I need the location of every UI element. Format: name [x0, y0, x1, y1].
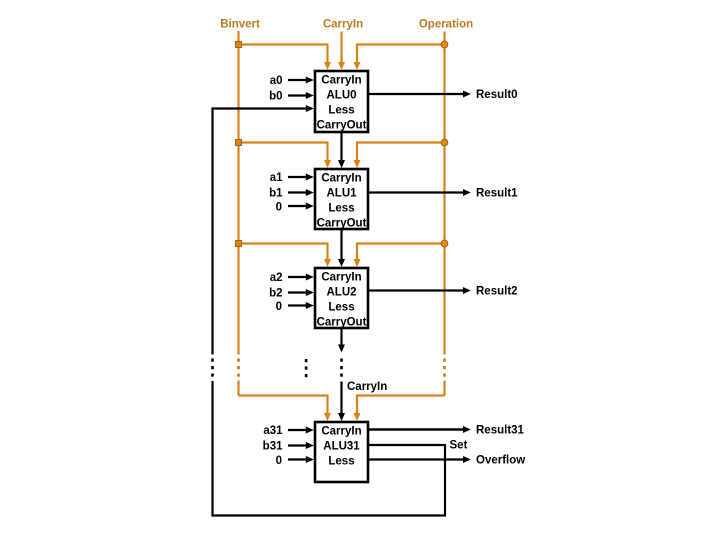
wire Set stub [368, 444, 446, 446]
junction Operation level1 [441, 139, 448, 146]
wire carry cascade U0 to U1 [340, 132, 342, 162]
arrow Result31 [463, 426, 471, 433]
wire b0 input [288, 94, 307, 96]
arrow b0 into U0 [306, 92, 314, 99]
pin label a1 [270, 172, 283, 184]
arrow carry into U2 [338, 259, 345, 267]
wire 0 into U31 [288, 458, 307, 460]
junction Binvert level0 [236, 42, 242, 48]
wire b2 input [288, 291, 307, 293]
svg-text:Less: Less [328, 203, 354, 215]
pin label b2 [269, 288, 282, 300]
arrow 0 into U31 [306, 456, 314, 463]
arrow Result0 [463, 91, 471, 98]
ALU U1 [315, 169, 368, 230]
svg-text:Less: Less [328, 105, 354, 117]
wire Operation branch level0 [357, 45, 445, 64]
svg-text:CarryOut: CarryOut [317, 218, 367, 230]
arrow Operation into U31 [354, 413, 361, 421]
pin label a31 [263, 425, 283, 437]
arrow CarryIn into U0 [338, 62, 345, 70]
arrow Operation into U1 [354, 160, 361, 168]
svg-text:CarryIn: CarryIn [321, 75, 361, 87]
svg-text:a0: a0 [270, 75, 283, 87]
wire b1 input [288, 191, 307, 193]
svg-text:Less: Less [328, 302, 354, 314]
wire Result0 [368, 93, 464, 95]
svg-text:CarryIn: CarryIn [321, 272, 361, 284]
arrow b31 into U31 [306, 442, 314, 449]
arrow Result1 [463, 189, 471, 196]
wire Result2 [368, 289, 464, 291]
pin label b1 [269, 188, 283, 200]
arrow 0 into U1 [306, 203, 314, 210]
arrow Result2 [463, 287, 471, 294]
value label 0 U1 [276, 202, 282, 214]
wire carry cascade below U2 [340, 328, 342, 346]
net label Binvert [220, 19, 260, 31]
wire Set feedback left vertical upper [211, 108, 213, 355]
arrow Less into U0 [306, 105, 314, 112]
arrow Binvert into U31 [324, 413, 331, 421]
svg-text:Result2: Result2 [476, 286, 518, 298]
svg-text:Overflow: Overflow [476, 455, 525, 467]
ellipsis input column [305, 359, 308, 377]
value label 0 U2 [276, 301, 282, 313]
svg-text:Result1: Result1 [476, 188, 518, 200]
wire CarryIn drop into U0 [340, 32, 342, 64]
ALU U0 [315, 71, 368, 132]
wire Operation trunk [443, 32, 445, 355]
ellipsis carry cascade [340, 359, 343, 377]
svg-text:b2: b2 [269, 288, 282, 300]
svg-text:b31: b31 [263, 441, 283, 453]
svg-text:CarryIn: CarryIn [321, 426, 361, 438]
arrow Operation into U0 [354, 62, 361, 70]
svg-text:CarryIn: CarryIn [347, 381, 387, 393]
pin label b0 [269, 91, 282, 103]
svg-text:b1: b1 [269, 188, 283, 200]
svg-text:Binvert: Binvert [220, 19, 260, 31]
wire a0 input [288, 79, 307, 81]
wire a1 input [288, 176, 307, 178]
junction Binvert level1 [236, 140, 242, 146]
svg-text:a31: a31 [263, 425, 283, 437]
wire Binvert trunk [237, 31, 239, 355]
wire Set feedback left vertical lower [211, 381, 213, 517]
svg-text:0: 0 [276, 202, 282, 214]
junction Operation level2 [441, 240, 448, 247]
arrow carry cascade stub [338, 345, 345, 353]
arrow Overflow [463, 456, 471, 463]
svg-text:CarryIn: CarryIn [321, 173, 361, 185]
net label CarryIn [323, 19, 363, 31]
net label Overflow [476, 455, 525, 467]
wire Set feedback right vertical [444, 445, 446, 517]
arrow Operation into U2 [354, 259, 361, 267]
svg-text:a1: a1 [270, 172, 283, 184]
wire carry cascade into U31 [340, 382, 342, 415]
junction Binvert level2 [236, 241, 242, 247]
svg-text:Result31: Result31 [476, 425, 525, 437]
wire a31 input [288, 429, 307, 431]
pin label a0 [270, 75, 283, 87]
ellipsis Binvert trunk [237, 359, 240, 377]
arrow carry into U1 [338, 160, 345, 168]
ellipsis Operation trunk [443, 359, 446, 377]
net label Result1 [476, 188, 518, 200]
svg-text:ALU0: ALU0 [326, 90, 356, 102]
arrow a31 into U31 [306, 427, 314, 434]
ellipsis Set feedback [211, 359, 214, 377]
wire 0 into U1 [288, 205, 307, 207]
net label CarryIn mid [347, 381, 387, 393]
net label Result2 [476, 286, 518, 298]
svg-text:0: 0 [276, 455, 282, 467]
wire Set feedback bottom horizontal [212, 514, 447, 516]
wire Binvert branch level1 [239, 143, 328, 162]
svg-text:b0: b0 [269, 91, 282, 103]
wire Binvert branch level0 [239, 45, 328, 64]
svg-text:ALU31: ALU31 [323, 441, 360, 453]
arrow Binvert into U0 [324, 62, 331, 70]
arrow b2 into U2 [306, 289, 314, 296]
svg-text:CarryOut: CarryOut [317, 317, 367, 329]
wire carry cascade U1 to U2 [340, 229, 342, 261]
pin label b31 [263, 441, 283, 453]
arrow Binvert into U1 [324, 160, 331, 168]
wire b31 input [288, 444, 307, 446]
wire Binvert branch level2 [239, 244, 328, 261]
wire Operation branch level1 [357, 143, 445, 162]
arrow a1 into U1 [306, 174, 314, 181]
net label Result0 [476, 89, 518, 101]
svg-text:Operation: Operation [419, 19, 473, 31]
arrow a0 into U0 [306, 77, 314, 84]
wire Operation trunk lower segment [443, 381, 445, 396]
wire Operation branch level3 [357, 396, 445, 415]
arrow Binvert into U2 [324, 259, 331, 267]
svg-text:0: 0 [276, 301, 282, 313]
wire Binvert trunk lower segment [237, 381, 239, 396]
wire Less input U0 [212, 107, 308, 109]
svg-text:Set: Set [450, 440, 468, 452]
svg-text:a2: a2 [270, 272, 283, 284]
svg-text:ALU2: ALU2 [326, 287, 356, 299]
junction Operation level0 [441, 41, 448, 48]
wire Binvert branch level3 [239, 396, 328, 415]
wire a2 input [288, 276, 307, 278]
value label 0 U31 [276, 455, 282, 467]
wire Result31 [368, 428, 464, 430]
wire Overflow [368, 458, 464, 460]
svg-text:Less: Less [328, 456, 354, 468]
wire 0 into U2 [288, 304, 307, 306]
arrow b1 into U1 [306, 189, 314, 196]
svg-text:CarryIn: CarryIn [323, 19, 363, 31]
arrow 0 into U2 [306, 302, 314, 309]
net label Set [450, 440, 468, 452]
ALU U2 [315, 268, 368, 329]
wire Result1 [368, 191, 464, 193]
net label Result31 [476, 425, 525, 437]
svg-text:CarryOut: CarryOut [317, 120, 367, 132]
svg-text:ALU1: ALU1 [326, 188, 357, 200]
arrow carry into U31 [338, 413, 345, 421]
ALU U31 [315, 422, 368, 482]
net label Operation [419, 19, 473, 31]
pin label a2 [270, 272, 283, 284]
svg-text:Result0: Result0 [476, 89, 518, 101]
arrow a2 into U2 [306, 274, 314, 281]
wire Operation branch level2 [357, 244, 445, 261]
